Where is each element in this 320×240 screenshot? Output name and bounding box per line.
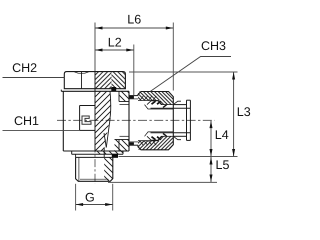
bore wall outline xyxy=(104,91,129,157)
dimension L6 xyxy=(95,13,173,30)
label CH3 with leader xyxy=(151,39,232,91)
section boundary line at vertical axis xyxy=(94,72,96,151)
svg-text:L3: L3 xyxy=(237,105,251,119)
threaded stud G xyxy=(76,157,113,181)
label CH1 with leader xyxy=(3,114,80,130)
washer under body (section) xyxy=(72,151,123,154)
svg-text:CH2: CH2 xyxy=(12,61,37,75)
retaining clip glyph xyxy=(82,116,91,124)
extension line L2 right xyxy=(133,45,135,96)
extension line G right xyxy=(112,184,114,211)
svg-text:CH3: CH3 xyxy=(201,39,226,53)
cutting ring sleeve bottom xyxy=(145,132,174,140)
extension line L3 top xyxy=(129,71,238,73)
extension line G left xyxy=(75,184,77,211)
bonded seal (black section) xyxy=(76,154,118,158)
nut thread ticks top xyxy=(140,96,156,100)
nut CH3 outline xyxy=(138,92,173,150)
nut CH3 hatch top xyxy=(138,92,173,105)
tube xyxy=(151,105,191,137)
dimension L2 xyxy=(95,36,134,52)
port stub thread xyxy=(129,96,138,146)
seal ring under head (section, black) xyxy=(111,87,116,91)
body ring CH1 left edge xyxy=(62,91,64,151)
label CH2 with leader xyxy=(3,61,65,78)
body ring CH1 top edge xyxy=(61,90,129,92)
hex head CH2 section hatch left part xyxy=(95,72,112,89)
tube end bead xyxy=(187,100,191,140)
inner rectangle recess on left face xyxy=(80,106,95,131)
body section hatch upper right block xyxy=(119,91,129,101)
body section hatch lower right block xyxy=(115,140,130,152)
nut thread ticks bottom xyxy=(140,141,156,145)
dimension G xyxy=(76,190,113,206)
svg-text:L4: L4 xyxy=(215,128,229,142)
body ring CH1 bottom edge xyxy=(63,150,129,152)
svg-text:G: G xyxy=(85,190,95,204)
body section hatch left of bore xyxy=(95,91,111,151)
dimension L3 xyxy=(232,72,251,157)
tube sleeve protrusion diagonals xyxy=(173,101,181,140)
extension line L6 right xyxy=(172,23,174,91)
dimension L5 xyxy=(210,157,230,182)
extension line L3 L4 bottom xyxy=(119,156,238,158)
svg-text:L6: L6 xyxy=(127,13,141,27)
stud section hatch xyxy=(104,157,113,181)
body ring CH1 right edge xyxy=(128,91,130,151)
dimension L4 xyxy=(210,121,229,157)
svg-text:CH1: CH1 xyxy=(14,114,39,128)
nut CH3 hatch bottom xyxy=(138,136,173,150)
vertical centerline xyxy=(94,23,96,185)
svg-text:L5: L5 xyxy=(216,158,230,172)
svg-text:L2: L2 xyxy=(108,36,122,50)
port bore lines into body xyxy=(120,105,130,137)
cutting ring sleeve top xyxy=(145,101,174,109)
hex head CH2 section hatch right part xyxy=(112,72,126,89)
extension line L5 bottom xyxy=(108,181,217,183)
hex head CH2 outline xyxy=(64,72,125,89)
horizontal centerline xyxy=(57,119,215,121)
